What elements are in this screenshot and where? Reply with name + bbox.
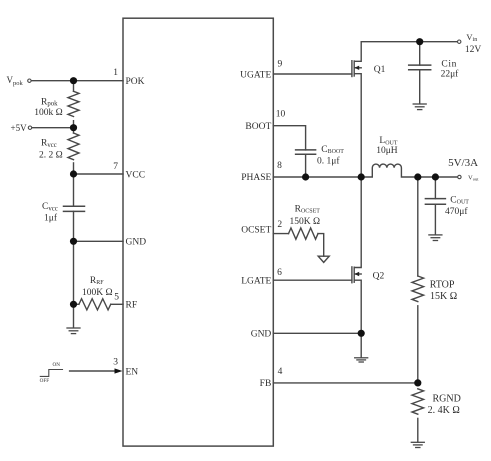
node BOOT/PHASE junction xyxy=(302,173,309,180)
svg-text:OFF: OFF xyxy=(40,378,50,384)
svg-text:9: 9 xyxy=(278,59,283,69)
svg-text:10μH: 10μH xyxy=(376,146,398,156)
svg-text:UGATE: UGATE xyxy=(240,70,271,80)
node Vin junction xyxy=(416,38,423,45)
svg-text:EN: EN xyxy=(126,367,139,377)
svg-text:1: 1 xyxy=(113,68,118,78)
wire GND pin left xyxy=(74,240,124,242)
wire Vin top rail xyxy=(361,41,457,43)
resistor Rpok xyxy=(68,91,79,116)
ground (under Cin) xyxy=(413,104,426,110)
node POK junction xyxy=(70,77,77,84)
svg-text:2. 4K Ω: 2. 4K Ω xyxy=(428,405,460,416)
wire Cout drop xyxy=(434,177,436,199)
node Vin terminal xyxy=(458,40,461,43)
ground (left rail) xyxy=(67,328,80,334)
node RF junction xyxy=(70,301,77,308)
transistor Q2 xyxy=(351,267,353,283)
svg-text:15K Ω: 15K Ω xyxy=(430,291,457,302)
svg-text:5: 5 xyxy=(114,293,119,303)
svg-text:100k Ω: 100k Ω xyxy=(34,108,62,118)
node PHASE junction xyxy=(358,173,365,180)
svg-text:BOOT: BOOT xyxy=(245,122,271,132)
svg-text:Q1: Q1 xyxy=(374,65,386,75)
capacitor Cvcc xyxy=(64,205,85,207)
svg-text:2. 2 Ω: 2. 2 Ω xyxy=(39,150,63,160)
svg-text:LGATE: LGATE xyxy=(241,276,271,286)
resistor RGND xyxy=(412,389,424,414)
svg-text:8: 8 xyxy=(277,161,282,171)
svg-text:0. 1μf: 0. 1μf xyxy=(317,155,340,166)
wire FB pin 4 xyxy=(273,382,418,384)
inductor Lout xyxy=(361,164,457,177)
svg-text:GND: GND xyxy=(126,238,147,248)
ground (right GND) xyxy=(355,358,368,362)
wire ON/OFF step symbol xyxy=(40,370,62,377)
node Vpok terminal xyxy=(28,79,31,82)
node +5V junction xyxy=(70,124,77,131)
svg-text:ON: ON xyxy=(53,362,61,368)
wire Rvcc to VCC node xyxy=(73,163,75,206)
svg-text:12V: 12V xyxy=(465,45,482,55)
capacitor Cboot xyxy=(296,149,316,151)
node Vout/Cout junction xyxy=(432,173,439,180)
svg-text:470μf: 470μf xyxy=(445,206,468,217)
wire Cout to ground xyxy=(434,204,436,234)
svg-text:3: 3 xyxy=(113,357,118,367)
capacitor Cout xyxy=(425,198,445,200)
transistor Q1 xyxy=(351,61,353,77)
svg-text:Vout: Vout xyxy=(468,175,479,182)
ground (under RGND) xyxy=(411,442,424,447)
node FB junction xyxy=(414,379,421,386)
wire +5V feed xyxy=(32,127,74,129)
wire RTOP to FB xyxy=(417,306,419,383)
wire RF stub xyxy=(74,303,79,305)
wire PHASE pin 8 xyxy=(273,176,361,178)
svg-text:Q2: Q2 xyxy=(373,272,385,282)
wire Cin to ground xyxy=(419,70,421,104)
wire RGND to ground xyxy=(417,418,419,442)
wire UGATE pin 9 xyxy=(273,73,352,75)
node VCC junction xyxy=(70,170,77,177)
wire Cvcc to ground xyxy=(73,211,75,327)
node +5V terminal xyxy=(28,126,31,129)
svg-text:100K Ω: 100K Ω xyxy=(82,288,113,298)
node Vout terminal xyxy=(458,175,461,178)
svg-text:POK: POK xyxy=(126,77,145,87)
svg-text:5V/3A: 5V/3A xyxy=(448,157,478,169)
ground (OCSET arrow) xyxy=(318,256,329,262)
wire GND pin right xyxy=(273,332,361,334)
svg-text:VCC: VCC xyxy=(126,170,146,180)
svg-text:FB: FB xyxy=(260,379,272,389)
wire VCC pin 7 xyxy=(74,173,124,175)
svg-text:PHASE: PHASE xyxy=(241,173,271,183)
wire RTOP drop xyxy=(417,177,419,276)
svg-text:2: 2 xyxy=(277,220,282,230)
node GND-right junction xyxy=(358,330,365,337)
svg-text:1μf: 1μf xyxy=(44,213,58,224)
wire Vpok to POK pin 1 xyxy=(31,80,123,82)
wire OCSET pin 2 xyxy=(273,233,288,235)
svg-text:4: 4 xyxy=(278,367,283,377)
wire LGATE pin 6 xyxy=(273,279,352,281)
wire Rpok to +5V node xyxy=(73,121,75,133)
svg-text:Cin: Cin xyxy=(441,60,457,70)
svg-text:7: 7 xyxy=(113,162,118,172)
resistor Rvcc xyxy=(68,133,79,160)
resistor Rocset xyxy=(289,228,319,239)
svg-text:+5V: +5V xyxy=(11,123,28,133)
wire GND to ground xyxy=(360,333,362,357)
svg-text:150K Ω: 150K Ω xyxy=(290,217,321,227)
op-amp U1 (regulator IC body) xyxy=(123,18,273,446)
wire Cboot to phase xyxy=(305,154,307,177)
svg-text:10: 10 xyxy=(276,110,286,120)
ground (under Cout) xyxy=(429,235,442,241)
svg-text:GND: GND xyxy=(251,330,272,340)
resistor RTOP xyxy=(412,276,424,302)
svg-text:6: 6 xyxy=(277,268,282,278)
svg-text:RF: RF xyxy=(126,301,138,311)
svg-text:RGND: RGND xyxy=(433,393,461,404)
capacitor Cin xyxy=(409,64,431,66)
wire Rocset tail xyxy=(318,234,324,257)
node GND-left junction xyxy=(70,238,77,245)
svg-text:OCSET: OCSET xyxy=(241,226,271,236)
resistor Rrf xyxy=(79,299,111,310)
svg-text:22μf: 22μf xyxy=(441,69,460,80)
wire EN arrow line pin 3 xyxy=(70,370,116,372)
wire left rail top xyxy=(73,81,75,92)
wire Cin drop xyxy=(419,42,421,65)
svg-text:RTOP: RTOP xyxy=(430,279,455,290)
wire EN arrowhead xyxy=(115,368,123,373)
node Vout/RTOP junction xyxy=(414,173,421,180)
wire Rrf to RF pin 5 xyxy=(111,303,123,305)
wire BOOT pin 10 xyxy=(273,126,305,150)
